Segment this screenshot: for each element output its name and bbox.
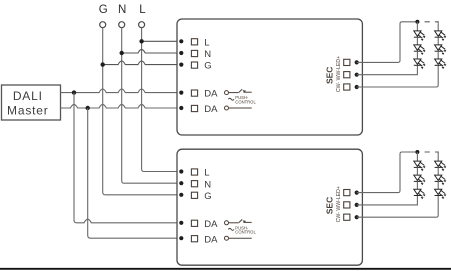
wire N to driver1 N [122, 49, 182, 53]
wire LED string1 drop U1 [416, 22, 418, 31]
terminal dot G U1 [179, 63, 183, 67]
output dot SEC2 U1 [355, 73, 359, 77]
node L (mains input terminal) [139, 4, 147, 28]
terminal square DA2 U2 [191, 236, 197, 242]
terminal dot L U2 [179, 169, 183, 173]
page separator line [0, 268, 451, 270]
wire L vertical feed [142, 28, 182, 172]
wire DA- drop to driver2 [88, 108, 182, 238]
wire DALI DA+ bus to driver1 [61, 89, 182, 93]
terminal dot DA1 U1 [179, 91, 183, 95]
LED D25 [435, 175, 447, 189]
terminal square G U1 [191, 62, 197, 68]
svg-text:G: G [204, 191, 211, 202]
output dot SEC1 U2 [355, 191, 359, 195]
LED D26 [435, 189, 447, 199]
svg-text:N: N [204, 49, 211, 60]
svg-text:SEC: SEC [324, 197, 334, 214]
terminal dot DA1 U2 [179, 221, 183, 225]
wire DA+ drop to driver2 [74, 93, 181, 223]
push-control contact circle bottom U1 [225, 106, 229, 110]
terminal square DA1 U2 [191, 220, 197, 226]
push-control label U1 [235, 95, 256, 104]
LED driver U1 body [177, 19, 362, 135]
LED D24 [435, 161, 447, 175]
LED D12 [414, 45, 426, 59]
output dot SEC3 U1 [355, 85, 359, 89]
svg-text:DA: DA [204, 104, 218, 115]
svg-text:DA: DA [204, 219, 218, 230]
push-control contact circle top U1 [225, 91, 229, 95]
svg-text:N: N [204, 179, 211, 190]
wire N vertical feed [122, 28, 182, 184]
wire LED string1 drop U2 [416, 152, 418, 161]
terminal square L U2 [191, 169, 197, 175]
push-control bottom wire U1 [229, 107, 252, 109]
wire G to driver1 G [103, 61, 182, 65]
LED D14 [435, 31, 447, 45]
svg-text:CONTROL: CONTROL [235, 99, 256, 104]
push-control contact circle bottom U2 [225, 236, 229, 240]
junction DA- bus [86, 106, 90, 110]
output square SEC1 U1 [344, 59, 350, 65]
LED D16 [435, 59, 447, 69]
output dot SEC3 U2 [355, 215, 359, 219]
wire DALI DA- bus to driver1 [61, 104, 182, 108]
node G (mains input terminal) [99, 4, 108, 28]
svg-text:SEC: SEC [324, 67, 334, 84]
svg-text:CW- WW-LED+: CW- WW-LED+ [336, 186, 342, 222]
dashed LED rail continuation U2 [425, 152, 439, 154]
junction L/driver1 [139, 39, 143, 43]
terminal square N U1 [191, 50, 197, 56]
wire LED string2 drop U1 [437, 24, 439, 31]
wire G vertical feed [103, 28, 182, 195]
svg-text:N: N [118, 4, 126, 16]
LED D11 [414, 31, 426, 45]
terminal dot G U2 [179, 193, 183, 197]
wire SEC WW- to LED string1 bottom U1 [357, 66, 418, 75]
output square SEC3 U2 [344, 214, 350, 220]
svg-text:L: L [204, 37, 209, 48]
wire SEC CW- to LED string U2 [357, 152, 418, 193]
terminal square L U1 [191, 39, 197, 45]
LED D13 [414, 59, 426, 69]
svg-text:L: L [139, 4, 146, 16]
terminal dot N U1 [179, 51, 183, 55]
svg-text:DA: DA [204, 234, 218, 245]
terminal square DA2 U1 [191, 105, 197, 111]
terminal square N U2 [191, 181, 197, 187]
push-control contact circle top U2 [225, 221, 229, 225]
push-control switch blade U2 [229, 219, 252, 222]
DALI master controller box [2, 85, 61, 120]
svg-text:Master: Master [7, 103, 48, 117]
LED D22 [414, 175, 426, 189]
push-control switch blade U1 [229, 89, 252, 92]
terminal dot N U2 [179, 181, 183, 185]
junction G/driver1 [101, 62, 105, 66]
dashed LED rail continuation U1 [425, 22, 439, 24]
output square SEC2 U2 [344, 202, 350, 208]
junction LED rail U2 [415, 150, 419, 154]
svg-text:CW- WW-LED+: CW- WW-LED+ [336, 56, 342, 92]
output square SEC2 U1 [344, 72, 350, 78]
svg-text:DALI: DALI [13, 89, 43, 103]
svg-text:CONTROL: CONTROL [235, 230, 256, 235]
output dot SEC2 U2 [355, 203, 359, 207]
push-control bottom wire U2 [229, 237, 252, 239]
wire SEC LED+ to LED string2 bottom U2 [357, 196, 439, 217]
terminal square G U2 [191, 192, 197, 198]
svg-text:G: G [99, 4, 108, 16]
wire SEC WW- to LED string1 bottom U2 [357, 196, 418, 205]
junction N/driver1 [120, 51, 124, 55]
node N (mains input terminal) [118, 4, 126, 28]
terminal square DA1 U1 [191, 90, 197, 96]
wire SEC CW- to LED string U1 [357, 22, 418, 63]
svg-text:L: L [204, 168, 209, 179]
output square SEC1 U2 [344, 190, 350, 196]
wire SEC LED+ to LED string2 bottom U1 [357, 66, 439, 87]
wire LED string2 drop U2 [437, 154, 439, 161]
output square SEC3 U1 [344, 84, 350, 90]
LED D23 [414, 189, 426, 199]
svg-text:DA: DA [204, 89, 218, 100]
wire L to driver1 L [142, 40, 182, 42]
push-control label U2 [235, 225, 256, 234]
junction DA+ bus [72, 90, 76, 94]
terminal dot DA2 U2 [179, 236, 183, 240]
terminal dot DA2 U1 [179, 106, 183, 110]
LED D15 [435, 45, 447, 59]
output dot SEC1 U1 [355, 60, 359, 64]
LED driver U2 body [177, 149, 362, 265]
svg-text:G: G [204, 61, 211, 72]
push-control AC tilde U1 [228, 98, 234, 100]
LED D21 [414, 161, 426, 175]
junction LED rail U1 [415, 20, 419, 24]
terminal dot L U1 [179, 39, 183, 43]
push-control AC tilde U2 [228, 228, 234, 230]
